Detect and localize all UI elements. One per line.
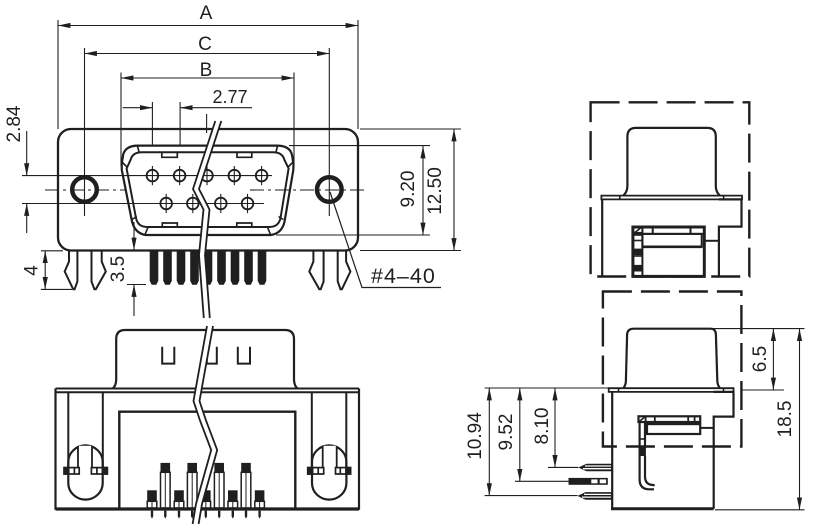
lock leg right bbox=[324, 446, 336, 467]
shell inner outline bbox=[127, 152, 289, 227]
svg-text:A: A bbox=[200, 3, 213, 24]
oval hole left bbox=[68, 445, 102, 499]
break line a bbox=[193, 326, 212, 524]
FRONT VIEW bbox=[22, 20, 461, 318]
contact pins comb bbox=[150, 251, 267, 285]
dim B bbox=[121, 77, 294, 79]
module outer box bbox=[633, 227, 704, 276]
mounting hole right bbox=[317, 177, 342, 202]
centerline horizontal bbox=[45, 189, 368, 191]
board lock legs right bbox=[309, 251, 350, 289]
ladder column bbox=[641, 227, 643, 276]
svg-text:C: C bbox=[198, 34, 212, 55]
dim 4 bbox=[44, 251, 46, 290]
pcb pin row 1 bbox=[578, 464, 612, 472]
dashed boundary box bbox=[603, 292, 742, 447]
dim A bbox=[58, 25, 358, 27]
flange extension line bbox=[485, 387, 611, 389]
flange side plate bbox=[601, 196, 742, 200]
break line b bbox=[199, 326, 218, 524]
cavity walls left bbox=[67, 392, 69, 470]
module hatch bbox=[634, 228, 641, 234]
break ribbon bbox=[193, 326, 218, 524]
pin row lines bbox=[22, 175, 272, 177]
pcb pin row 2 bbox=[569, 478, 608, 485]
BOTTOM LEFT VIEW bbox=[56, 326, 360, 524]
svg-text:3.5: 3.5 bbox=[108, 256, 129, 282]
contact bar bbox=[647, 424, 700, 434]
link to body bbox=[704, 240, 719, 242]
dim 2.77 bbox=[123, 107, 153, 109]
svg-text:8.10: 8.10 bbox=[532, 408, 553, 445]
polarization notch 2 bbox=[207, 347, 217, 364]
svg-text:2.84: 2.84 bbox=[4, 105, 25, 142]
dashed boundary box bbox=[591, 102, 750, 276]
pins top row bbox=[147, 170, 268, 182]
svg-text:18.5: 18.5 bbox=[775, 401, 796, 438]
TOP RIGHT VIEW bbox=[591, 102, 750, 276]
clip bar right bbox=[308, 468, 351, 474]
body right edge and tab bbox=[719, 199, 742, 276]
contact J bend bbox=[640, 456, 654, 489]
svg-text:9.52: 9.52 bbox=[496, 414, 517, 451]
dim 9.20 bbox=[422, 146, 424, 235]
contact bar bbox=[642, 234, 701, 247]
dim 2.84 bbox=[26, 131, 28, 176]
pins bottom row bbox=[160, 198, 253, 210]
lock leg left bbox=[79, 446, 91, 467]
body right edge and tab bbox=[714, 392, 734, 509]
flange plate double line bbox=[56, 388, 360, 390]
pin stubs below board bbox=[151, 511, 261, 519]
module top band bbox=[633, 233, 704, 235]
svg-text:2.77: 2.77 bbox=[212, 87, 247, 107]
break ribbon bbox=[193, 121, 221, 318]
leader #4-40 bbox=[330, 192, 441, 288]
body left edge bbox=[601, 199, 603, 276]
dim C bbox=[85, 53, 330, 55]
short pins (near row) bbox=[147, 490, 264, 508]
dim 10.94 bbox=[485, 495, 578, 497]
hole centerline vertical right bbox=[328, 48, 330, 216]
insulator box bbox=[119, 412, 295, 508]
break line b bbox=[199, 121, 221, 318]
body left edge bbox=[611, 392, 613, 509]
svg-text:9.20: 9.20 bbox=[398, 171, 419, 208]
svg-text:4: 4 bbox=[22, 265, 43, 276]
center mark bbox=[206, 114, 208, 133]
body bottom edge bbox=[611, 507, 714, 510]
dim 3.5 bbox=[133, 222, 135, 250]
polarization notch 1 bbox=[162, 347, 174, 364]
tall pins (far row) bbox=[161, 463, 251, 508]
link to body bbox=[700, 427, 713, 429]
dim 18.5 bbox=[715, 509, 805, 511]
hole centerline vertical left bbox=[84, 48, 86, 216]
board lock legs left bbox=[65, 251, 106, 289]
mounting hole left bbox=[72, 177, 97, 202]
shell corner ticks bbox=[123, 146, 293, 235]
ladder column bbox=[638, 422, 640, 448]
polarization notch 3 bbox=[238, 347, 250, 364]
cavity walls right bbox=[311, 392, 313, 470]
dome outline bbox=[623, 329, 720, 389]
svg-text:B: B bbox=[200, 60, 213, 81]
dim 9.52 bbox=[515, 480, 569, 482]
dim 12.50 bbox=[453, 129, 455, 251]
dim 8.10 bbox=[548, 466, 578, 468]
module hatch bbox=[639, 417, 645, 422]
polarization bumps bbox=[162, 152, 252, 226]
BOTTOM RIGHT VIEW bbox=[485, 292, 805, 510]
dome outline bbox=[623, 128, 720, 196]
module top band bbox=[639, 416, 701, 422]
oval hole right bbox=[312, 445, 346, 499]
svg-text:#4–40: #4–40 bbox=[371, 264, 436, 288]
dim 6.5 bbox=[712, 328, 805, 330]
clip bar left bbox=[64, 468, 107, 474]
svg-text:12.50: 12.50 bbox=[425, 167, 446, 215]
svg-text:10.94: 10.94 bbox=[465, 412, 486, 460]
outer box bbox=[54, 389, 56, 510]
svg-text:6.5: 6.5 bbox=[750, 346, 771, 372]
bottom edge bbox=[56, 507, 360, 510]
flange side plate bbox=[609, 388, 734, 392]
shell outer outline bbox=[122, 146, 294, 235]
flange body outline bbox=[58, 129, 358, 251]
pcb pin row 3 bbox=[577, 492, 611, 500]
shell top outline bbox=[113, 330, 298, 388]
break line a bbox=[193, 121, 215, 318]
